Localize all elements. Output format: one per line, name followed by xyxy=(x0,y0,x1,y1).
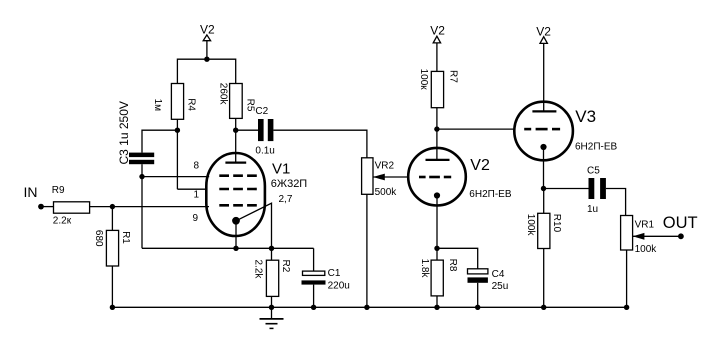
wire R4 bottom stub xyxy=(176,119,178,130)
wire C4 bottom stub xyxy=(477,283,479,308)
svg-text:100к: 100к xyxy=(418,69,429,91)
node rail junction R8 xyxy=(434,305,439,310)
wire R4 junction down to grid xyxy=(176,130,178,189)
wire cathode to C4 xyxy=(437,248,478,268)
resistor R2 xyxy=(252,260,291,297)
svg-text:2,7: 2,7 xyxy=(279,194,293,205)
wire R5 bottom stub xyxy=(235,118,237,130)
svg-text:VR2: VR2 xyxy=(375,161,395,172)
tube V1 cathode dot xyxy=(232,217,240,225)
wire V2 cathode stub xyxy=(436,196,438,249)
wire V3 anode supply xyxy=(543,43,545,111)
node rail junction R1 xyxy=(110,305,115,310)
svg-text:2.2k: 2.2k xyxy=(252,260,263,280)
svg-text:1u: 1u xyxy=(587,204,598,215)
wire C2 to VR2 drop xyxy=(273,130,367,158)
node junction V2 cathode xyxy=(434,246,439,251)
svg-text:R9: R9 xyxy=(52,185,65,196)
svg-text:V3: V3 xyxy=(575,107,596,126)
node OUT terminal xyxy=(663,214,698,239)
svg-text:C1: C1 xyxy=(328,268,341,279)
wire pin1 grid line xyxy=(177,188,207,190)
tube V1 grid row pin 9 xyxy=(219,204,256,207)
resistor R9 xyxy=(52,185,90,226)
wire R8 stubs xyxy=(436,248,438,260)
svg-text:IN: IN xyxy=(24,184,38,200)
svg-text:C2: C2 xyxy=(255,106,268,117)
svg-text:R5: R5 xyxy=(244,99,255,112)
wire top rail R4-R5 xyxy=(177,59,235,83)
wire bottom ground rail xyxy=(112,306,626,308)
wire IN to R9 xyxy=(41,206,54,208)
capacitor C4 xyxy=(468,269,509,292)
svg-text:1: 1 xyxy=(194,189,200,200)
capacitor C1 xyxy=(302,268,350,292)
wire VR2 bottom stub xyxy=(366,194,368,307)
wire VR1 bottom stub xyxy=(626,250,628,307)
node junction R4 bottom xyxy=(175,128,180,133)
power symbol V2 arrow (middle) xyxy=(433,36,440,43)
svg-text:0.1u: 0.1u xyxy=(255,146,274,157)
wire V2 anode to V3 grid xyxy=(437,128,515,130)
svg-text:V2: V2 xyxy=(430,24,445,38)
node rail junction R10 xyxy=(541,305,546,310)
capacitor C2 xyxy=(255,106,274,157)
wire R5 junction to C2 xyxy=(236,129,258,131)
resistor R1 xyxy=(93,230,131,266)
svg-text:V2: V2 xyxy=(200,22,215,36)
svg-text:100k: 100k xyxy=(525,214,536,237)
wire VR1 wiper to OUT xyxy=(633,235,681,237)
tube V1 grid row pin 1 xyxy=(219,188,256,191)
resistor R7 xyxy=(418,69,459,108)
svg-text:9: 9 xyxy=(193,213,199,224)
node rail junction VR1 xyxy=(624,305,629,310)
tube V2 cathode dot xyxy=(434,192,440,198)
node junction C3 bottom xyxy=(139,174,144,179)
wire cathode row xyxy=(142,247,314,249)
svg-text:6Н2П-ЕВ: 6Н2П-ЕВ xyxy=(575,142,618,153)
node junction V2 tap xyxy=(204,57,209,62)
power symbol V2 arrow (left) xyxy=(203,35,210,41)
node junction cathode xyxy=(233,246,238,251)
potentiometer VR2 xyxy=(362,158,398,198)
tube V2 envelope xyxy=(408,148,466,206)
tube V2 name labels xyxy=(469,157,512,200)
svg-text:2.2к: 2.2к xyxy=(53,215,72,226)
tube V1 envelope xyxy=(206,153,265,236)
node IN terminal xyxy=(24,184,44,210)
wire C1 top stub xyxy=(313,248,315,271)
wire cathode to C5 xyxy=(544,188,589,190)
potentiometer VR1 xyxy=(621,216,658,255)
tube V2 grid xyxy=(419,176,451,179)
svg-text:C4: C4 xyxy=(492,269,505,280)
node junction R5 bottom xyxy=(233,128,238,133)
wire R10 stubs xyxy=(543,189,545,214)
wire C3 junction down to cathode row xyxy=(141,177,143,249)
node junction V2 anode xyxy=(434,126,439,131)
tube V3 envelope xyxy=(514,102,573,161)
svg-text:OUT: OUT xyxy=(663,214,698,232)
svg-text:220u: 220u xyxy=(328,281,350,292)
capacitor C3 xyxy=(117,101,154,164)
wire R1 top stub xyxy=(111,207,113,231)
node rail junction R2 xyxy=(269,305,274,310)
wire C1 bottom stub xyxy=(313,285,315,308)
svg-text:500k: 500k xyxy=(375,187,398,198)
tube V2 anode plate xyxy=(426,159,450,161)
tube V3 cathode dot xyxy=(540,144,546,150)
svg-text:8: 8 xyxy=(194,160,200,171)
wire C5 to VR1 xyxy=(606,189,626,216)
wire V1 anode stub xyxy=(235,130,237,162)
node rail junction C4 xyxy=(475,305,480,310)
wire V2 arrow to top rail xyxy=(206,41,208,60)
wire pin8 line C3 to tube xyxy=(142,176,209,178)
tube V1 anode plate xyxy=(225,161,246,163)
node junction V3 cathode xyxy=(541,186,546,191)
tube V3 anode plate xyxy=(532,110,556,112)
wire R9 to junction and pin9 grid line xyxy=(90,206,209,208)
resistor R4 xyxy=(152,84,196,120)
resistor R8 xyxy=(419,259,458,296)
wire V1 pins 2,7 diagonal xyxy=(236,203,272,248)
node rail junction VR2 xyxy=(364,305,369,310)
svg-text:1м: 1м xyxy=(152,99,163,112)
tube V1 name labels xyxy=(271,161,308,191)
wire R2 top stub xyxy=(271,248,273,260)
resistor R10 xyxy=(525,213,562,248)
wire V1 cathode stub xyxy=(235,221,237,249)
svg-text:1.8k: 1.8k xyxy=(419,259,430,279)
svg-text:R1: R1 xyxy=(120,231,131,244)
wire V3 cathode stub xyxy=(543,147,545,189)
node rail junction C1 xyxy=(311,305,316,310)
node V2 supply label (left) xyxy=(200,22,215,36)
svg-text:6Ж32П: 6Ж32П xyxy=(271,178,308,190)
svg-text:R7: R7 xyxy=(447,70,458,83)
svg-text:C5: C5 xyxy=(587,165,600,176)
wire R7 bottom stub xyxy=(436,108,438,129)
svg-text:R10: R10 xyxy=(551,214,562,233)
resistor R5 xyxy=(217,83,255,119)
svg-text:25u: 25u xyxy=(492,281,509,292)
svg-text:R8: R8 xyxy=(447,259,458,272)
node junction R2 top xyxy=(269,246,274,251)
svg-text:R2: R2 xyxy=(280,260,291,273)
wire VR2 wiper to V2 grid xyxy=(373,176,408,178)
capacitor C5 xyxy=(587,165,606,215)
svg-text:V1: V1 xyxy=(272,161,290,178)
wire R2 bottom stub xyxy=(271,296,273,307)
wire C3 bottom stub xyxy=(141,164,143,176)
power symbol V2 arrow (right) xyxy=(540,37,547,44)
svg-text:100k: 100k xyxy=(635,244,658,255)
svg-text:V2: V2 xyxy=(470,157,490,174)
svg-text:VR1: VR1 xyxy=(635,220,655,231)
tube V3 name labels xyxy=(575,107,618,153)
ground xyxy=(260,307,284,328)
svg-text:260k: 260k xyxy=(217,83,228,106)
svg-text:6Н2П-ЕВ: 6Н2П-ЕВ xyxy=(469,189,512,200)
tube V3 grid xyxy=(524,128,560,131)
tube V1 grid row pin 8 xyxy=(219,174,256,177)
node junction input xyxy=(110,204,115,209)
svg-text:C3 1u 250V: C3 1u 250V xyxy=(117,101,131,164)
wire R1 bottom stub xyxy=(111,266,113,307)
svg-text:680: 680 xyxy=(93,230,104,247)
wire V2 arrow to R7 xyxy=(436,43,438,72)
wire R4 junction to C3 top xyxy=(142,130,177,152)
wire V2 anode stub xyxy=(436,129,438,160)
svg-text:R4: R4 xyxy=(185,98,196,111)
